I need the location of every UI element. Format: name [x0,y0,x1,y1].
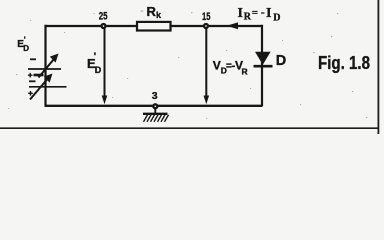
label VD = -VR [213,59,248,77]
svg-text:': ' [94,52,96,63]
svg-text:I: I [238,6,243,21]
current arrow IR [227,22,239,29]
svg-text:3: 3 [152,90,158,102]
diode D [254,52,273,66]
wire right [261,25,263,107]
page border right [377,0,379,134]
battery long plate 1 [28,68,61,70]
battery adjust arrow 2 [30,80,47,100]
ground [143,108,169,121]
svg-text:15: 15 [202,11,211,23]
svg-text:D: D [23,44,29,53]
voltage arrow ED (from node 25 down) [102,28,108,105]
node 3 [153,104,157,108]
svg-text:V: V [213,59,221,73]
label IR = -ID [238,5,281,24]
svg-text:R: R [244,12,252,23]
battery plus sign 2 [28,92,33,94]
wire top [46,25,263,27]
battery ED (adjustable source) [28,54,67,100]
resistor Rk [137,22,171,31]
svg-text:D: D [276,53,286,69]
svg-text:D: D [273,13,280,24]
wire bottom [45,105,263,107]
svg-text:Fig. 1.8: Fig. 1.8 [318,53,370,73]
wire left [44,25,46,106]
svg-text:25: 25 [99,10,108,22]
node 15 [204,24,208,28]
battery plus sign 1 [28,74,33,76]
label Rk [147,4,163,20]
page border bottom [0,127,379,129]
node 25 [102,24,106,28]
svg-text:I: I [266,6,271,21]
svg-text:=: = [252,7,258,19]
voltage arrow VD (from node 15 down) [204,29,210,105]
battery adjust arrow 1 [39,59,55,78]
svg-text:R: R [242,67,248,77]
label ED (middle) [87,52,102,76]
battery minus dash 2 [29,80,36,82]
svg-text:-: - [261,5,265,19]
battery minus sign top [30,58,36,60]
battery long plate 2 [29,86,67,88]
label ED (left, source) [17,36,29,54]
battery short plate 1 [34,74,44,77]
svg-text:R: R [147,4,157,19]
svg-text:D: D [95,65,102,75]
